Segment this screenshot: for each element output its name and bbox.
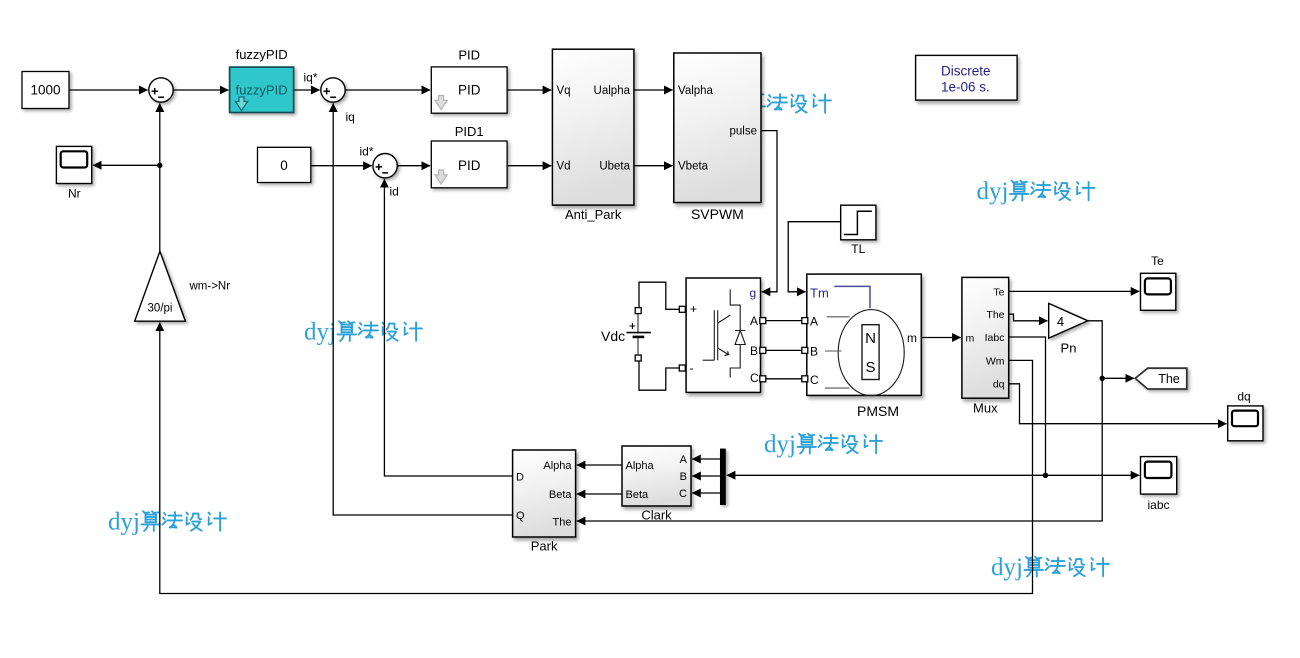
watermark wm6	[991, 554, 1109, 581]
svg-text:C: C	[679, 488, 687, 500]
svg-text:iabc: iabc	[1147, 498, 1169, 512]
wire 1000 to sum1	[69, 89, 148, 91]
wire Clark Beta to Park Beta	[577, 493, 622, 495]
wire PMSM m to Mux m	[921, 337, 960, 339]
wire const0 to sum3	[311, 165, 372, 167]
wire Pn out down to The tag branch and Park The	[577, 321, 1102, 521]
wire Mux Te to Te scope	[1009, 290, 1140, 292]
junction dot iabc branch	[1043, 473, 1048, 478]
svg-text:PID: PID	[458, 48, 480, 63]
svg-text:Vbeta: Vbeta	[678, 161, 709, 173]
svg-text:D: D	[516, 471, 524, 483]
svg-text:Wm: Wm	[986, 355, 1005, 367]
svg-text:id: id	[390, 185, 399, 199]
svg-text:The: The	[986, 309, 1004, 321]
inverter IGBT and diode icon	[703, 289, 746, 377]
demux bar	[720, 449, 726, 505]
svg-text:m: m	[907, 331, 917, 345]
svg-text:1e-06 s.: 1e-06 s.	[941, 80, 990, 95]
block Clark	[622, 446, 691, 506]
svg-text:Alpha: Alpha	[543, 460, 572, 472]
watermark wm4	[108, 509, 226, 536]
wire bar to Clark A	[692, 458, 720, 460]
svg-text:g: g	[750, 286, 757, 300]
svg-text:PID: PID	[458, 158, 481, 173]
wire Ualpha to Valpha	[634, 89, 673, 91]
junction dot Nr branch	[157, 163, 162, 168]
gain Pn	[1049, 303, 1088, 338]
svg-text:Tm: Tm	[810, 286, 829, 301]
svg-text:S: S	[865, 359, 875, 376]
svg-text:Te: Te	[993, 286, 1004, 298]
svg-text:m: m	[966, 333, 975, 345]
wire Mux dq to dq scope	[1009, 384, 1227, 424]
wire sum2 to PID	[345, 89, 430, 91]
svg-text:fuzzyPID: fuzzyPID	[236, 47, 288, 62]
wire pulse to inverter g	[761, 131, 777, 292]
wire PID1 to Anti_Park Vd	[507, 165, 551, 167]
wire inverter B to PMSM B	[766, 349, 802, 351]
wire inverter A to PMSM A	[766, 320, 802, 322]
wire Mux The to Pn gain	[1009, 314, 1048, 321]
svg-text:The: The	[553, 517, 572, 529]
wire inverter C to PMSM C	[766, 378, 802, 380]
svg-text:Nr: Nr	[68, 187, 81, 201]
svg-text:A: A	[750, 314, 758, 328]
svg-text:Q: Q	[516, 510, 525, 522]
block SVPWM	[674, 53, 761, 203]
block Anti_Park	[552, 49, 634, 205]
battery Vdc symbol	[627, 308, 651, 361]
watermark wm1 (behind SVPWM)	[713, 91, 831, 118]
svg-text:Discrete: Discrete	[941, 64, 991, 79]
svg-text:0: 0	[280, 158, 288, 173]
goto tag The	[1135, 368, 1187, 389]
block PID	[431, 67, 507, 113]
svg-text:PMSM: PMSM	[857, 403, 899, 419]
svg-text:dq: dq	[1237, 390, 1250, 404]
svg-text:Vq: Vq	[557, 85, 571, 97]
svg-text:PID: PID	[458, 83, 481, 98]
block Mux	[962, 277, 1009, 398]
wire bar to Clark B	[692, 475, 720, 477]
svg-text:TL: TL	[851, 242, 865, 256]
svg-text:4: 4	[1057, 314, 1064, 329]
svg-text:id*: id*	[360, 145, 374, 159]
scope dq	[1228, 406, 1263, 441]
wire gain 30/pi up to sum1	[159, 103, 161, 251]
block inverter	[686, 278, 760, 392]
wire Clark Alpha to Park Alpha	[577, 464, 622, 466]
svg-text:iq*: iq*	[304, 71, 318, 85]
block Park	[513, 450, 576, 537]
scope Te	[1141, 273, 1176, 310]
svg-text:Vd: Vd	[557, 161, 571, 173]
svg-text:pulse: pulse	[730, 126, 758, 138]
svg-text:C: C	[810, 373, 819, 387]
constant block 1000	[22, 72, 69, 109]
wire fuzzyPID to sum2	[294, 89, 320, 91]
constant block 0	[258, 147, 311, 182]
svg-text:SVPWM: SVPWM	[691, 206, 744, 222]
watermark wm5	[764, 431, 882, 458]
svg-text:B: B	[750, 344, 758, 358]
wire branch to Nr scope	[93, 164, 160, 166]
svg-text:Vdc: Vdc	[601, 328, 625, 344]
wire Park Q feedback up to sum2	[333, 103, 512, 515]
block fuzzyPID	[230, 67, 294, 112]
svg-text:dq: dq	[993, 379, 1005, 391]
PMSM port squares	[802, 318, 808, 382]
svg-text:The: The	[1158, 372, 1180, 386]
svg-text:Alpha: Alpha	[626, 460, 655, 472]
svg-text:-: -	[690, 361, 694, 375]
svg-text:C: C	[750, 371, 759, 385]
wire bar to Clark C	[692, 492, 720, 494]
scope iabc	[1141, 457, 1177, 495]
block TL step	[841, 205, 876, 240]
wire PID to Anti_Park Vq	[507, 89, 551, 91]
wire TL to PMSM Tm	[788, 222, 841, 292]
wire battery plus to inverter plus	[639, 282, 679, 309]
sum S2 iq	[321, 78, 345, 102]
svg-text:Pn: Pn	[1061, 341, 1077, 356]
wire iabc line to demux bar	[727, 474, 1046, 476]
svg-text:Te: Te	[1151, 254, 1164, 268]
wire branch to The tag	[1102, 377, 1134, 379]
wire sum1 to fuzzyPID	[173, 89, 228, 91]
sum S1	[149, 78, 173, 102]
svg-text:1000: 1000	[30, 83, 60, 98]
wire sum3 to PID1	[397, 165, 430, 167]
inverter port squares	[679, 306, 766, 382]
wire Ubeta to Vbeta	[634, 165, 673, 167]
svg-text:N: N	[865, 330, 876, 347]
svg-text:+: +	[690, 302, 697, 316]
svg-text:A: A	[810, 315, 818, 329]
svg-text:Mux: Mux	[973, 401, 998, 416]
svg-text:Ubeta: Ubeta	[599, 161, 630, 173]
svg-text:Beta: Beta	[549, 489, 573, 501]
block PID1	[431, 141, 507, 188]
block Discrete	[916, 55, 1018, 100]
svg-text:wm->Nr: wm->Nr	[189, 281, 231, 293]
wire battery minus to inverter minus	[639, 361, 679, 390]
svg-text:PID1: PID1	[455, 124, 484, 139]
sum S3 id	[373, 154, 397, 178]
svg-text:Park: Park	[531, 539, 558, 554]
svg-text:iq: iq	[346, 110, 355, 124]
svg-text:B: B	[680, 471, 687, 483]
wire Mux Wm feedback to gain 30/pi	[160, 323, 1033, 594]
watermark wm3	[304, 319, 422, 346]
svg-text:B: B	[810, 345, 818, 359]
svg-text:Ualpha: Ualpha	[594, 85, 631, 97]
svg-text:Beta: Beta	[626, 489, 650, 501]
wire Mux Iabc down to junction	[1009, 337, 1046, 475]
svg-text:fuzzyPID: fuzzyPID	[236, 83, 288, 98]
gain 30/pi wm to Nr	[135, 251, 186, 321]
junction dot The branch	[1100, 376, 1105, 381]
svg-text:A: A	[680, 454, 688, 466]
block PMSM	[807, 274, 922, 396]
svg-text:Clark: Clark	[641, 508, 672, 523]
svg-text:Valpha: Valpha	[678, 85, 714, 97]
wire iabc line to iabc scope	[1046, 474, 1140, 476]
wire Park D feedback up to sum3	[384, 179, 512, 476]
watermark wm2	[977, 178, 1095, 205]
svg-text:Anti_Park: Anti_Park	[565, 207, 622, 222]
svg-text:Iabc: Iabc	[985, 332, 1005, 344]
svg-text:30/pi: 30/pi	[148, 303, 173, 315]
scope Nr	[56, 146, 91, 183]
